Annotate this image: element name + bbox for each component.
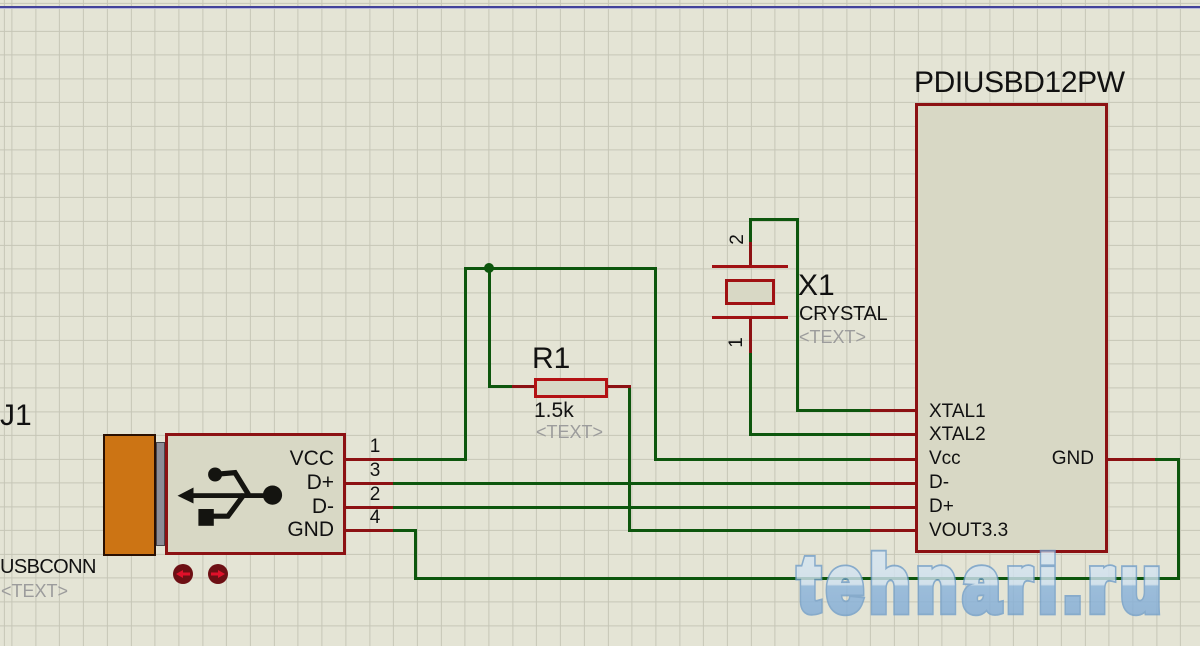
IC pin label D+	[929, 497, 954, 516]
J1 pin number 3	[368, 461, 382, 480]
crystal pin number 2 (rotated)	[728, 234, 747, 245]
wire vertical x465	[464, 267, 467, 461]
IC pin D+ wire	[870, 506, 917, 509]
J1 pin 2 wire	[344, 506, 393, 509]
R1 value label	[534, 400, 574, 421]
crystal X1 bottom plate	[712, 316, 788, 319]
junction node dot	[482, 261, 496, 275]
IC pin VOUT3.3 wire	[870, 529, 917, 532]
connector J1 grey tongue	[156, 442, 165, 546]
J1 pin 3 wire	[344, 482, 393, 485]
wire vertical x797	[796, 218, 799, 412]
J1 label D+	[307, 472, 334, 493]
wire VOUT3.3 horizontal	[628, 529, 872, 532]
crystal X1 pin2 red	[749, 242, 752, 267]
wire GND J1 short	[393, 529, 417, 532]
IC title PDIUSBD12PW	[914, 68, 1125, 98]
crystal pin number 1 (rotated)	[727, 337, 746, 348]
wire IC Vcc vertical x655	[654, 267, 657, 460]
IC pin label XTAL1	[929, 402, 986, 421]
watermark tehnari.ru	[788, 539, 1183, 645]
wire junction stub down to R1	[488, 267, 491, 387]
connector J1 orange shroud	[103, 434, 156, 555]
R1 reference label	[532, 344, 570, 374]
wire right vertical up	[1177, 458, 1180, 580]
X1 value label CRYSTAL	[799, 304, 887, 324]
X1 property text	[799, 328, 866, 346]
wire crystal top horizontal	[749, 218, 799, 221]
IC U1 body PDIUSBD12PW	[915, 103, 1108, 553]
wire crystal pin1 down	[749, 351, 752, 436]
resistor R1 left lead	[512, 385, 534, 388]
J1 pin number 1	[368, 437, 382, 456]
J1 label VCC	[290, 448, 334, 469]
R1 property text	[536, 423, 603, 441]
IC pin XTAL1 wire	[870, 409, 917, 412]
wire XTAL1 horizontal	[796, 409, 873, 412]
wire GND IC green part	[1155, 458, 1180, 461]
wire crystal pin2 up	[749, 218, 752, 244]
IC pin label VOUT3.3	[929, 521, 1008, 540]
resistor R1 right lead	[608, 385, 631, 388]
IC pin GND wire	[1106, 458, 1155, 461]
J1 value label USBCONN	[0, 557, 96, 577]
wire VCC J1 pin1 to vertical	[393, 458, 466, 461]
J1 label GND	[287, 519, 334, 540]
wire D+ row	[393, 482, 872, 485]
connector J1 body	[165, 433, 346, 555]
wire GND vertical down	[414, 529, 417, 580]
wire D- row	[393, 506, 872, 509]
IC pin label D-	[929, 473, 949, 492]
J1 label D-	[312, 496, 334, 517]
wire R1 left green	[488, 385, 514, 388]
IC pin label GND	[1052, 449, 1094, 468]
J1 pin 4 wire	[344, 529, 393, 532]
top blue border line	[0, 6, 1200, 8]
J1 pin number 4	[368, 508, 382, 527]
resistor R1 body	[534, 378, 608, 398]
wire XTAL2 horizontal	[749, 433, 873, 436]
wire R1 right vertical down	[628, 385, 631, 532]
IC pin Vcc wire	[870, 458, 917, 461]
IC pin XTAL2 wire	[870, 433, 917, 436]
crystal X1 top plate	[712, 265, 788, 268]
J1 pin 1 wire	[344, 458, 393, 461]
wire top rail y268	[464, 267, 657, 270]
J1 origin marker left	[172, 563, 194, 585]
IC pin label XTAL2	[929, 425, 986, 444]
J1 origin marker right	[207, 563, 229, 585]
IC pin D- wire	[870, 482, 917, 485]
wire IC Vcc horizontal	[654, 458, 872, 461]
IC pin label Vcc	[929, 449, 961, 468]
X1 reference label	[798, 271, 835, 301]
crystal X1 body	[725, 279, 775, 305]
svg-text:tehnari.ru: tehnari.ru	[798, 540, 1167, 628]
wire bottom rail	[414, 577, 1180, 580]
crystal X1 pin1 red	[749, 317, 752, 353]
J1 pin number 2	[368, 485, 382, 504]
USB trident icon	[172, 462, 284, 530]
J1 reference label	[0, 401, 32, 431]
J1 property text	[1, 582, 68, 600]
